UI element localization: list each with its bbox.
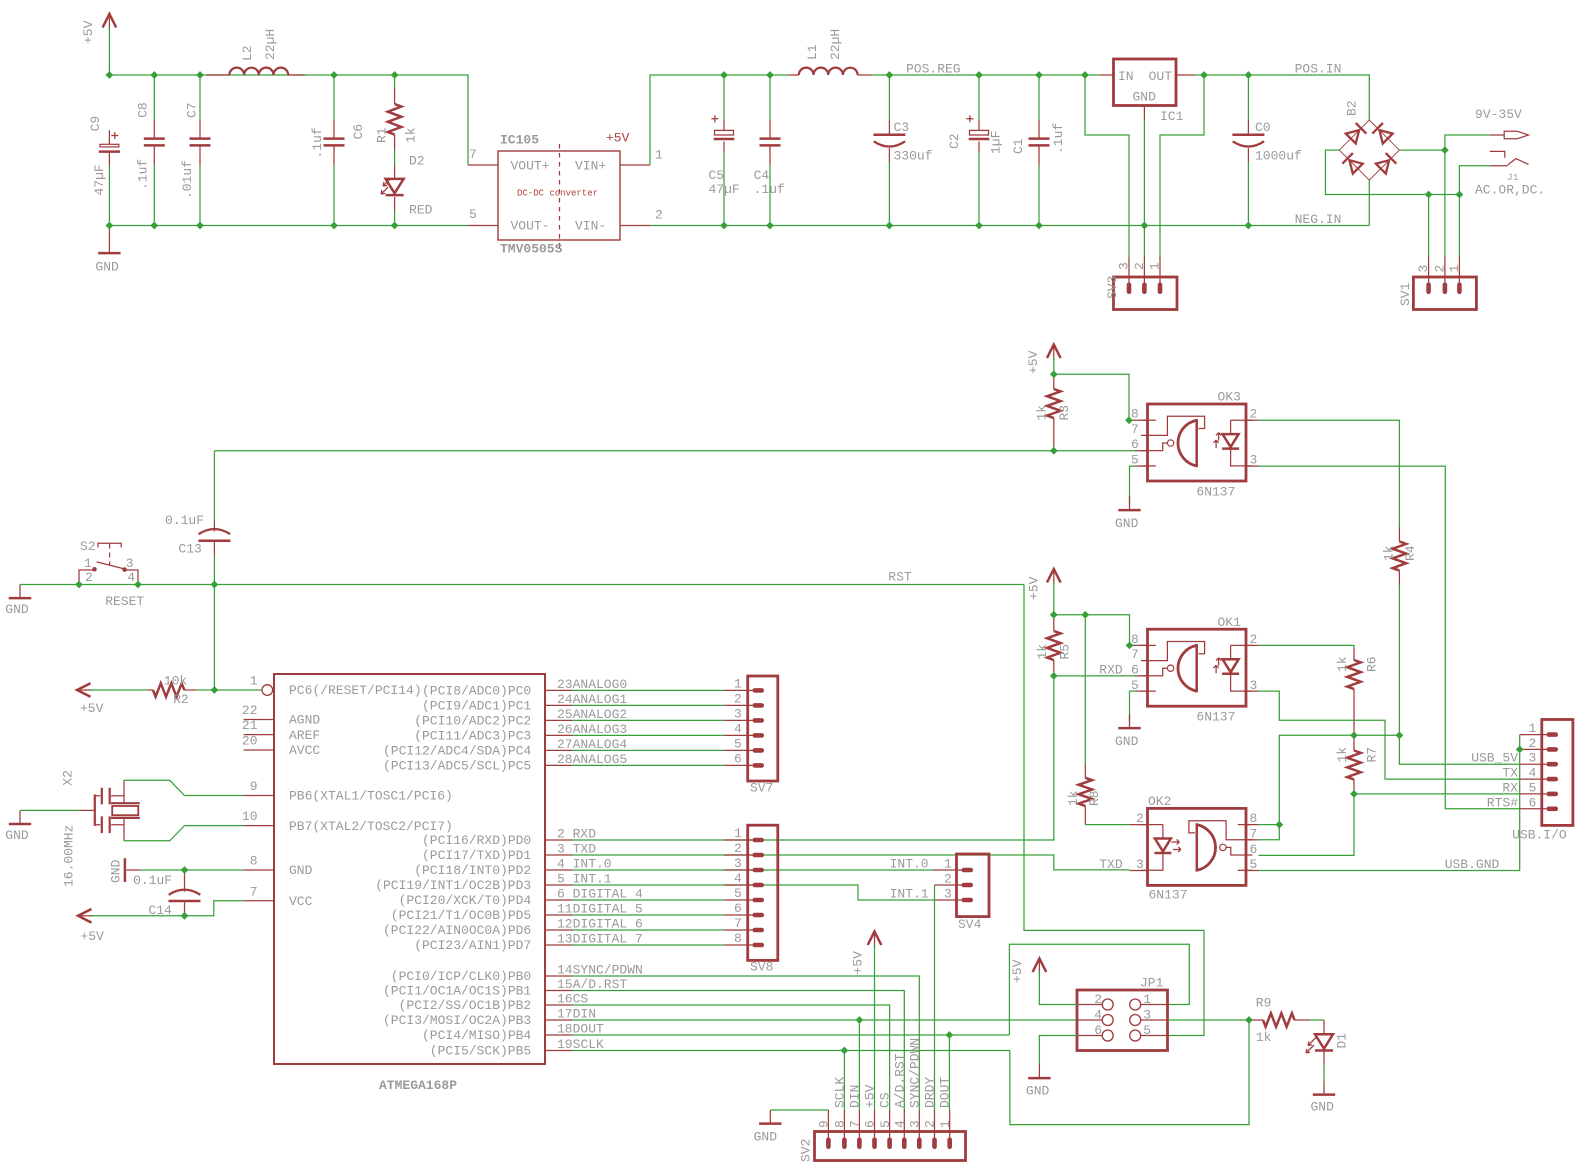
- wire USB_5V net: [1354, 735, 1520, 764]
- svg-text:VIN+: VIN+: [575, 159, 606, 174]
- svg-text:(PCI12/ADC4/SDA)PC4: (PCI12/ADC4/SDA)PC4: [383, 744, 531, 759]
- svg-text:R7: R7: [1365, 747, 1380, 763]
- pin stubs OK2: [1130, 824, 1148, 826]
- svg-text:(PCI3/MOSI/OC2A)PB3: (PCI3/MOSI/OC2A)PB3: [383, 1013, 531, 1028]
- inductor L1 22uH: [788, 29, 871, 75]
- svg-text:TXD: TXD: [1099, 857, 1123, 872]
- svg-text:(PCI18/INT0)PD2: (PCI18/INT0)PD2: [414, 863, 531, 878]
- wire OK1 pin5 to ground: [1130, 691, 1136, 722]
- svg-text:(PCI23/AIN1)PD7: (PCI23/AIN1)PD7: [414, 938, 531, 953]
- svg-text:SV8: SV8: [750, 960, 773, 975]
- svg-text:7: 7: [469, 147, 477, 162]
- wire GND row to SV2 pin9: [770, 1109, 828, 1111]
- wire R9 to D1: [1310, 1019, 1324, 1021]
- wire DTR vertical to C13: [213, 451, 215, 521]
- wire C13 to RST: [213, 556, 215, 585]
- svg-text:.1uf: .1uf: [754, 182, 785, 197]
- wire SV1 pin3 drop: [1428, 195, 1430, 257]
- svg-text:(PCI1/OC1A/OC1S)PB1: (PCI1/OC1A/OC1S)PB1: [383, 984, 531, 999]
- svg-text:+5V: +5V: [1010, 959, 1025, 983]
- ground GND at JP1 pin6: [1026, 1065, 1051, 1099]
- svg-text:(PCI4/MISO)PB4: (PCI4/MISO)PB4: [422, 1028, 531, 1043]
- wire C7 leads: [199, 75, 201, 120]
- svg-text:POS.REG: POS.REG: [906, 62, 961, 77]
- svg-text:8: 8: [734, 931, 742, 946]
- svg-text:+5V: +5V: [606, 131, 630, 146]
- svg-text:C7: C7: [185, 102, 200, 118]
- svg-text:VOUT+: VOUT+: [511, 159, 550, 174]
- svg-text:C2: C2: [947, 133, 962, 149]
- svg-text:4: 4: [893, 1120, 908, 1128]
- svg-text:GND: GND: [95, 260, 119, 275]
- wire A/D.RST row: [573, 991, 905, 1111]
- IC IC1 voltage regulator: [1114, 59, 1184, 124]
- svg-text:9V-35V: 9V-35V: [1475, 107, 1522, 122]
- svg-text:GND: GND: [1026, 1084, 1050, 1099]
- svg-text:2: 2: [1250, 407, 1258, 422]
- switch S2 RESET: [79, 539, 144, 609]
- svg-text:15A/D.RST: 15A/D.RST: [557, 977, 627, 992]
- svg-text:2: 2: [1432, 265, 1447, 273]
- connector SV7: [724, 676, 778, 796]
- svg-text:22: 22: [242, 703, 258, 718]
- wire ANALOG rows to SV7: [573, 689, 724, 691]
- wire +5V to JP1 pin2: [1039, 971, 1078, 1005]
- svg-text:1µF: 1µF: [989, 131, 1004, 154]
- wire +5V top rail left: [109, 27, 468, 165]
- bridge rectifier B2: [1339, 100, 1399, 180]
- svg-text:2: 2: [655, 208, 663, 223]
- svg-text:4: 4: [734, 871, 742, 886]
- svg-text:2: 2: [1250, 632, 1258, 647]
- wire R8 to OK2 pin2: [1085, 824, 1129, 826]
- svg-text:7: 7: [1131, 422, 1139, 437]
- wire DIN row to JP1 pin4: [573, 1019, 1079, 1021]
- svg-text:1k: 1k: [1335, 656, 1350, 672]
- wire GND row to chip pin8: [140, 869, 244, 871]
- svg-text:SV3: SV3: [1105, 276, 1120, 299]
- resistor R1 1k: [375, 88, 419, 150]
- svg-text:ATMEGA168P: ATMEGA168P: [379, 1078, 457, 1093]
- svg-text:DIN: DIN: [847, 1085, 862, 1108]
- svg-text:+5V: +5V: [80, 701, 104, 716]
- wire SCLK loop to R9 junction: [1010, 1020, 1249, 1125]
- svg-text:SYNC/PDWN: SYNC/PDWN: [907, 1038, 922, 1108]
- svg-text:DRDY: DRDY: [923, 1077, 938, 1108]
- pin stubs IC105: [468, 164, 498, 166]
- svg-text:GND: GND: [1311, 1100, 1335, 1115]
- inverted pin circle chip pin1: [262, 685, 273, 696]
- svg-text:1: 1: [84, 556, 92, 571]
- svg-text:OUT: OUT: [1149, 69, 1173, 84]
- connector SV4: [934, 854, 990, 932]
- wire OUT branch to SV3 pin1: [1160, 75, 1204, 257]
- +5V supply arrow at R3: [1026, 345, 1061, 375]
- svg-text:10: 10: [242, 809, 258, 824]
- wire C1 leads: [1038, 75, 1040, 120]
- svg-text:16.00MHz: 16.00MHz: [62, 825, 77, 887]
- svg-text:2: 2: [1529, 736, 1537, 751]
- connector USB.I/O: [1512, 720, 1573, 843]
- svg-text:AREF: AREF: [289, 728, 320, 743]
- svg-text:2: 2: [1132, 262, 1147, 270]
- svg-text:2: 2: [734, 691, 742, 706]
- svg-text:6: 6: [863, 1120, 878, 1128]
- wire DRDY SV4 pin2 to SV2 pin2: [934, 885, 936, 1110]
- +5V supply arrow top-left: [81, 14, 116, 44]
- svg-text:1: 1: [734, 826, 742, 841]
- svg-text:C0: C0: [1255, 120, 1271, 135]
- svg-text:27ANALOG4: 27ANALOG4: [557, 737, 627, 752]
- svg-text:2 RXD: 2 RXD: [557, 827, 596, 842]
- resistor R9 1k: [1249, 996, 1310, 1046]
- wire OK3 pin5 to ground: [1130, 466, 1136, 504]
- svg-text:5: 5: [1250, 857, 1258, 872]
- resistor R2 10k: [148, 674, 196, 708]
- wire RST row: [20, 584, 1024, 586]
- svg-text:C13: C13: [178, 542, 201, 557]
- ground GND below C9: [95, 226, 120, 275]
- capacitor C9 47uF: [88, 116, 120, 196]
- svg-text:C9: C9: [88, 116, 103, 132]
- svg-text:SV1: SV1: [1398, 282, 1413, 306]
- svg-text:R1: R1: [375, 127, 390, 143]
- pin stubs IC1: [1100, 74, 1114, 76]
- wire INT.1 row: [573, 885, 934, 900]
- svg-text:.1uf: .1uf: [310, 127, 325, 158]
- svg-text:RED: RED: [409, 203, 433, 218]
- svg-text:AGND: AGND: [289, 713, 320, 728]
- svg-text:C3: C3: [894, 120, 910, 135]
- +5V arrow left at C14: [78, 909, 104, 944]
- svg-text:23ANALOG0: 23ANALOG0: [557, 677, 627, 692]
- svg-text:(PCI19/INT1/OC2B)PD3: (PCI19/INT1/OC2B)PD3: [375, 878, 531, 893]
- svg-text:.01uf: .01uf: [180, 160, 195, 199]
- svg-text:X2: X2: [60, 770, 75, 786]
- ground GND at crystal: [5, 810, 31, 843]
- svg-text:DC-DC converter: DC-DC converter: [517, 189, 598, 199]
- svg-text:3: 3: [1143, 1008, 1151, 1023]
- svg-text:1k: 1k: [1035, 644, 1050, 660]
- svg-text:1k: 1k: [1382, 545, 1397, 561]
- svg-text:C8: C8: [136, 102, 151, 118]
- inductor L2 22uH: [206, 29, 305, 75]
- svg-text:26ANALOG3: 26ANALOG3: [557, 722, 627, 737]
- svg-text:9: 9: [250, 779, 258, 794]
- svg-text:L1: L1: [805, 44, 820, 60]
- svg-text:C1: C1: [1011, 138, 1026, 154]
- capacitor C6 .1uf: [310, 120, 366, 165]
- wire DOUT loop to JP1 pin1: [1009, 944, 1189, 1035]
- wire +5V to R3 and OK3 pin8: [1053, 357, 1055, 374]
- wire IC1 OUT rail to bridge: [1195, 75, 1370, 120]
- svg-text:+5V: +5V: [80, 929, 104, 944]
- wire bridge right down to SV1 pin2: [1444, 150, 1446, 256]
- wire XTAL2 to pin10: [124, 826, 244, 841]
- svg-text:5: 5: [469, 207, 477, 222]
- svg-text:+5V: +5V: [851, 951, 866, 975]
- svg-text:0.1uF: 0.1uF: [133, 873, 172, 888]
- svg-text:TX: TX: [1502, 766, 1518, 781]
- wire GND bottom rail left: [109, 166, 468, 226]
- wire C3 leads: [888, 75, 890, 120]
- svg-text:28ANALOG5: 28ANALOG5: [557, 752, 627, 767]
- wire R1/D2 leads: [394, 75, 396, 88]
- svg-text:VOUT-: VOUT-: [511, 219, 550, 234]
- resistor R7 1k: [1335, 735, 1380, 794]
- svg-text:18DOUT: 18DOUT: [557, 1022, 604, 1037]
- svg-text:3: 3: [126, 556, 134, 571]
- svg-text:2: 2: [734, 841, 742, 856]
- svg-text:(PCI0/ICP/CLK0)PB0: (PCI0/ICP/CLK0)PB0: [391, 969, 531, 984]
- wire IC1 GND to bottom rail and SV3 pin2: [1143, 119, 1145, 257]
- svg-text:+5V: +5V: [1026, 350, 1041, 374]
- svg-text:6: 6: [734, 901, 742, 916]
- wire RX down to OK2 pin6: [1259, 794, 1355, 856]
- wire SCLK drop to SV2 pin8: [843, 1051, 845, 1111]
- wire OK1 pin2 to R6: [1259, 645, 1355, 648]
- connector SV3: [1105, 257, 1177, 310]
- svg-text:J1: J1: [1507, 172, 1519, 183]
- chip left pin stubs and labels: [242, 674, 453, 910]
- svg-text:0.1uF: 0.1uF: [165, 513, 204, 528]
- svg-text:AVCC: AVCC: [289, 743, 320, 758]
- wire +5V rail right of IC105: [650, 75, 788, 165]
- svg-text:3: 3: [1250, 678, 1258, 693]
- svg-text:7: 7: [1131, 647, 1139, 662]
- svg-text:12DIGITAL 6: 12DIGITAL 6: [557, 917, 643, 932]
- resistor R4 1k: [1382, 527, 1419, 585]
- svg-text:+5V: +5V: [1027, 576, 1042, 600]
- capacitor C5 47uF: [709, 115, 740, 197]
- svg-text:+5V: +5V: [81, 20, 96, 44]
- svg-text:4 INT.0: 4 INT.0: [557, 857, 612, 872]
- pin stubs OK1: [1130, 644, 1148, 646]
- svg-text:8: 8: [1131, 407, 1139, 422]
- wire INT.0 row: [573, 869, 934, 871]
- svg-text:22µH: 22µH: [263, 29, 278, 60]
- ground GND below D1: [1311, 1081, 1336, 1115]
- svg-text:1k: 1k: [1256, 1030, 1272, 1045]
- svg-text:7: 7: [250, 884, 258, 899]
- LED D2 RED: [381, 154, 433, 218]
- wire XTAL1 to pin9: [124, 780, 244, 795]
- svg-text:RXD: RXD: [1099, 663, 1123, 678]
- svg-text:R9: R9: [1256, 996, 1272, 1011]
- wire C0 leads: [1247, 75, 1249, 120]
- wire bottom rail to bridge bottom: [1368, 180, 1370, 225]
- svg-text:IN: IN: [1118, 69, 1134, 84]
- svg-text:47µF: 47µF: [92, 164, 107, 195]
- svg-text:2: 2: [1094, 992, 1102, 1007]
- svg-text:B2: B2: [1345, 100, 1360, 116]
- capacitor C4 .1uf: [754, 120, 785, 197]
- svg-text:GND: GND: [289, 863, 313, 878]
- pin numbers OK2: [1136, 811, 1257, 872]
- svg-text:5: 5: [1131, 453, 1139, 468]
- svg-text:4: 4: [1094, 1008, 1102, 1023]
- svg-text:6 DIGITAL 4: 6 DIGITAL 4: [557, 887, 643, 902]
- svg-text:C4: C4: [754, 168, 770, 183]
- svg-text:8: 8: [833, 1120, 848, 1128]
- pin stubs OK3: [1129, 419, 1148, 421]
- power plug J1 tip 9V-35V: [1475, 107, 1529, 139]
- svg-text:5: 5: [1143, 1023, 1151, 1038]
- svg-text:(PCI5/SCK)PB5: (PCI5/SCK)PB5: [430, 1044, 531, 1059]
- optocoupler OK3 6N137: [1141, 390, 1253, 500]
- svg-text:AC.OR,DC.: AC.OR,DC.: [1475, 183, 1545, 198]
- svg-text:GND: GND: [5, 602, 29, 617]
- svg-text:13DIGITAL 7: 13DIGITAL 7: [557, 932, 643, 947]
- svg-text:8: 8: [250, 854, 258, 869]
- chip right pin stubs, inside labels, pin numbers and net names: [375, 677, 643, 1059]
- svg-text:(PCI16/RXD)PD0: (PCI16/RXD)PD0: [422, 833, 531, 848]
- svg-text:2: 2: [923, 1120, 938, 1128]
- svg-text:6N137: 6N137: [1196, 710, 1235, 725]
- wire OK2 pins 8/7 up to USB_5V: [1259, 735, 1355, 824]
- wire SV1 pin1 drop: [1458, 195, 1460, 257]
- svg-text:PC6(/RESET/PCI14): PC6(/RESET/PCI14): [289, 683, 422, 698]
- optocoupler OK2 6N137: [1141, 794, 1253, 903]
- svg-text:5: 5: [734, 736, 742, 751]
- svg-text:22µH: 22µH: [828, 29, 843, 60]
- svg-text:6: 6: [1094, 1023, 1102, 1038]
- svg-text:PB7(XTAL2/TOSC2/PCI7): PB7(XTAL2/TOSC2/PCI7): [289, 819, 453, 834]
- svg-text:2: 2: [85, 570, 93, 585]
- svg-text:1000uf: 1000uf: [1255, 149, 1302, 164]
- wire DIN drop to SV2 pin7: [858, 1020, 860, 1110]
- wire bridge left AC loop: [1325, 150, 1459, 194]
- wire GND to JP1 pin6: [1039, 1036, 1078, 1065]
- svg-text:3: 3: [1117, 262, 1132, 270]
- svg-text:NEG.IN: NEG.IN: [1295, 212, 1342, 227]
- ground GND at SV2 pin9: [754, 1110, 782, 1145]
- IC IC105 TMV0505S DC-DC converter: [469, 131, 663, 257]
- svg-text:(PCI21/T1/OC0B)PD5: (PCI21/T1/OC0B)PD5: [391, 908, 531, 923]
- svg-text:7: 7: [1250, 826, 1258, 841]
- svg-text:6: 6: [1529, 795, 1537, 810]
- svg-text:1: 1: [944, 857, 952, 872]
- svg-text:5: 5: [734, 886, 742, 901]
- svg-text:.1uf: .1uf: [136, 159, 151, 190]
- svg-text:JP1: JP1: [1140, 976, 1164, 991]
- wire R8 vertical from +5V: [1084, 615, 1086, 764]
- resistor R5 1k: [1035, 615, 1073, 676]
- optocoupler OK1 6N137: [1141, 615, 1253, 725]
- wire R2 row: [90, 689, 148, 691]
- junction dots top section: [106, 71, 1464, 229]
- capacitor C8 .1uf: [136, 102, 165, 190]
- capacitor C0 1000uf: [1232, 120, 1301, 164]
- svg-text:3: 3: [1136, 857, 1144, 872]
- svg-text:(PCI2/SS/OC1B)PB2: (PCI2/SS/OC1B)PB2: [399, 998, 532, 1013]
- svg-text:5: 5: [1529, 780, 1537, 795]
- svg-text:25ANALOG2: 25ANALOG2: [557, 707, 627, 722]
- svg-text:1: 1: [1529, 721, 1537, 736]
- wire RX row: [1354, 793, 1520, 795]
- svg-text:6N137: 6N137: [1196, 485, 1235, 500]
- wire +5V drop to SV2 pin6: [874, 944, 876, 1110]
- svg-text:3: 3: [908, 1120, 923, 1128]
- svg-text:GND: GND: [109, 859, 124, 883]
- connector SV2: [799, 1038, 966, 1162]
- capacitor C7 .01uf: [180, 102, 211, 199]
- svg-text:CS: CS: [878, 1092, 893, 1108]
- svg-text:1: 1: [1148, 262, 1163, 270]
- wire DOUT row: [573, 1034, 1010, 1036]
- svg-text:SCLK: SCLK: [832, 1077, 847, 1108]
- wire rail between L1 and IC1: [871, 74, 1100, 76]
- connector SV8: [724, 825, 778, 974]
- svg-text:1: 1: [250, 674, 258, 689]
- svg-text:8: 8: [1250, 811, 1258, 826]
- svg-text:14SYNC/PDWN: 14SYNC/PDWN: [557, 963, 643, 978]
- svg-text:GND: GND: [1133, 90, 1157, 105]
- IC ATMEGA168P microcontroller: [274, 674, 545, 1064]
- svg-text:1: 1: [734, 676, 742, 691]
- wire R4 to USB_5V junction: [1398, 585, 1400, 735]
- svg-text:1: 1: [1143, 992, 1151, 1007]
- resistor R8 1k: [1066, 764, 1102, 825]
- svg-text:GND: GND: [1115, 734, 1139, 749]
- svg-text:R8: R8: [1087, 790, 1102, 806]
- svg-text:1k: 1k: [1335, 747, 1350, 763]
- svg-text:S2: S2: [80, 539, 96, 554]
- svg-text:20: 20: [242, 734, 258, 749]
- pin numbers OK1: [1131, 632, 1257, 693]
- svg-text:1: 1: [938, 1120, 953, 1128]
- capacitor C3 330uf: [873, 120, 932, 164]
- svg-text:IC1: IC1: [1160, 109, 1184, 124]
- svg-text:6N137: 6N137: [1149, 888, 1188, 903]
- svg-text:16CS: 16CS: [557, 992, 588, 1007]
- svg-text:USB.I/O: USB.I/O: [1512, 827, 1567, 842]
- svg-text:DOUT: DOUT: [938, 1077, 953, 1108]
- wire TXD row: [573, 855, 1130, 870]
- wire RST to R2 and chip pin1: [213, 585, 215, 691]
- connector J1 barrel jack contact: [1475, 151, 1545, 197]
- ground GND below OK1: [1115, 715, 1141, 750]
- wire SCLK row: [573, 1050, 1010, 1052]
- svg-text:SV7: SV7: [750, 781, 773, 796]
- svg-text:3: 3: [1529, 751, 1537, 766]
- svg-text:(PCI10/ADC2)PC2: (PCI10/ADC2)PC2: [414, 714, 531, 729]
- +5V arrow at JP1 pin2: [1010, 959, 1046, 984]
- svg-text:7: 7: [734, 916, 742, 931]
- svg-text:INT.1: INT.1: [890, 887, 929, 902]
- svg-text:R3: R3: [1057, 405, 1072, 421]
- connector SV1: [1398, 257, 1477, 310]
- svg-text:GND: GND: [754, 1130, 778, 1145]
- svg-text:POS.IN: POS.IN: [1295, 62, 1342, 77]
- svg-text:OK1: OK1: [1218, 615, 1242, 630]
- wire AC to J1 sleeve: [1459, 166, 1490, 195]
- svg-text:R2: R2: [173, 692, 189, 707]
- svg-text:9: 9: [817, 1120, 832, 1128]
- svg-text:VIN-: VIN-: [575, 219, 606, 234]
- svg-text:SV2: SV2: [799, 1139, 814, 1162]
- wire C6 leads: [333, 75, 335, 120]
- resistor R3 1k: [1035, 374, 1073, 450]
- wire crystal ground lead: [20, 809, 79, 811]
- capacitor C2 1uF: [947, 115, 1004, 154]
- svg-text:(PCI9/ADC1)PC1: (PCI9/ADC1)PC1: [422, 699, 531, 714]
- svg-text:C6: C6: [351, 124, 366, 140]
- wire IN branch to SV3 pin3: [1085, 75, 1129, 257]
- capacitor C1 .1uf: [1011, 120, 1066, 165]
- svg-text:USB_5V: USB_5V: [1471, 751, 1518, 766]
- svg-text:330uf: 330uf: [894, 149, 933, 164]
